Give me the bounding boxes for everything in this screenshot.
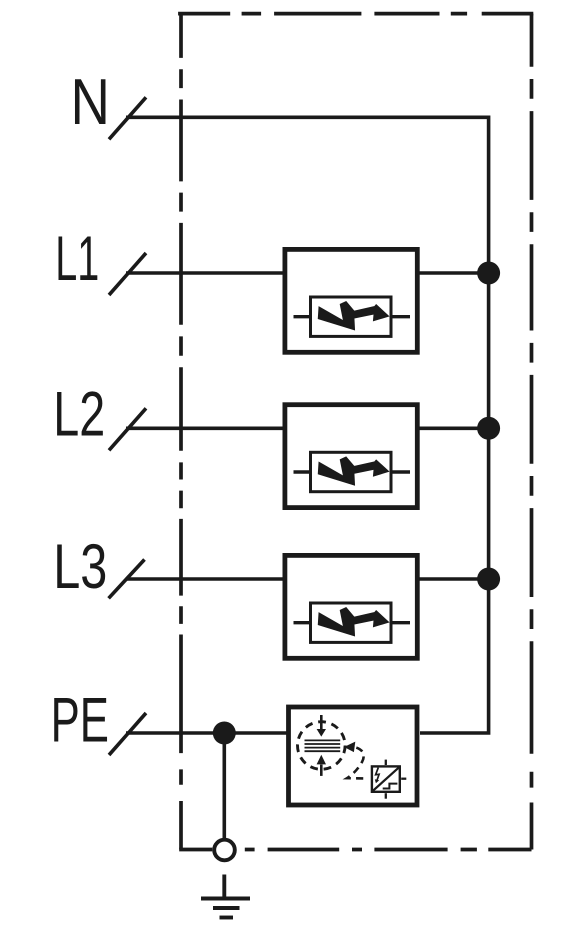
- surge arrester L2: [285, 405, 417, 508]
- square right stub: [401, 778, 406, 780]
- terminal slash L3: [109, 560, 145, 599]
- terminal slash L2: [109, 408, 146, 450]
- junction dot L2: [477, 417, 500, 440]
- trigger circuit square: [372, 766, 400, 791]
- svg-text:N: N: [71, 65, 110, 138]
- ground stem: [222, 875, 226, 899]
- wire L1 right: [418, 271, 489, 275]
- ground bar 2: [213, 906, 240, 910]
- electrode stack: [305, 740, 341, 751]
- spark gap box PE outline: [289, 707, 418, 805]
- dash-dot boundary frame right edge: [530, 14, 534, 850]
- wire L3 left: [126, 577, 284, 581]
- wire L1 left: [126, 271, 284, 275]
- wire PE left: [126, 731, 288, 735]
- svg-text:L2: L2: [53, 378, 105, 449]
- trigger arrowhead: [344, 742, 355, 753]
- square diagonal: [372, 766, 400, 791]
- dash-dot boundary frame top edge: [178, 12, 533, 16]
- surge arrester L3: [285, 555, 417, 658]
- ground bar 3: [220, 916, 234, 920]
- square bottom stub: [385, 793, 387, 799]
- svg-text:L1: L1: [55, 224, 99, 295]
- wire PE down to earth terminal: [223, 733, 227, 840]
- svg-text:L3: L3: [53, 531, 107, 602]
- bottom arrow: [317, 755, 326, 776]
- square lightning tip: [375, 779, 379, 783]
- spark gap dashed circle: [298, 722, 346, 770]
- junction dot L3: [477, 568, 500, 591]
- square lightning: [376, 768, 380, 781]
- dash-dot boundary frame left edge: [179, 14, 183, 850]
- square step: [383, 784, 398, 789]
- junction dot PE: [213, 722, 236, 745]
- dash-dot boundary frame bottom edge: [179, 848, 531, 852]
- junction dot L1: [477, 262, 500, 285]
- ground bar 1: [201, 897, 250, 901]
- top arrow: [317, 715, 326, 737]
- trigger dashed line: [347, 748, 368, 779]
- earth terminal circle: [214, 840, 235, 861]
- wire L2 left: [126, 426, 284, 430]
- square top stub: [385, 760, 387, 765]
- terminal slash L1: [109, 253, 146, 295]
- wire L3 right: [418, 577, 489, 581]
- svg-text:PE: PE: [51, 684, 109, 755]
- surge arrester L1: [285, 249, 417, 352]
- terminal slash N: [109, 97, 146, 139]
- terminal slash PE: [109, 713, 146, 755]
- wire L2 right: [418, 426, 489, 430]
- wire N with right bus: [126, 117, 489, 733]
